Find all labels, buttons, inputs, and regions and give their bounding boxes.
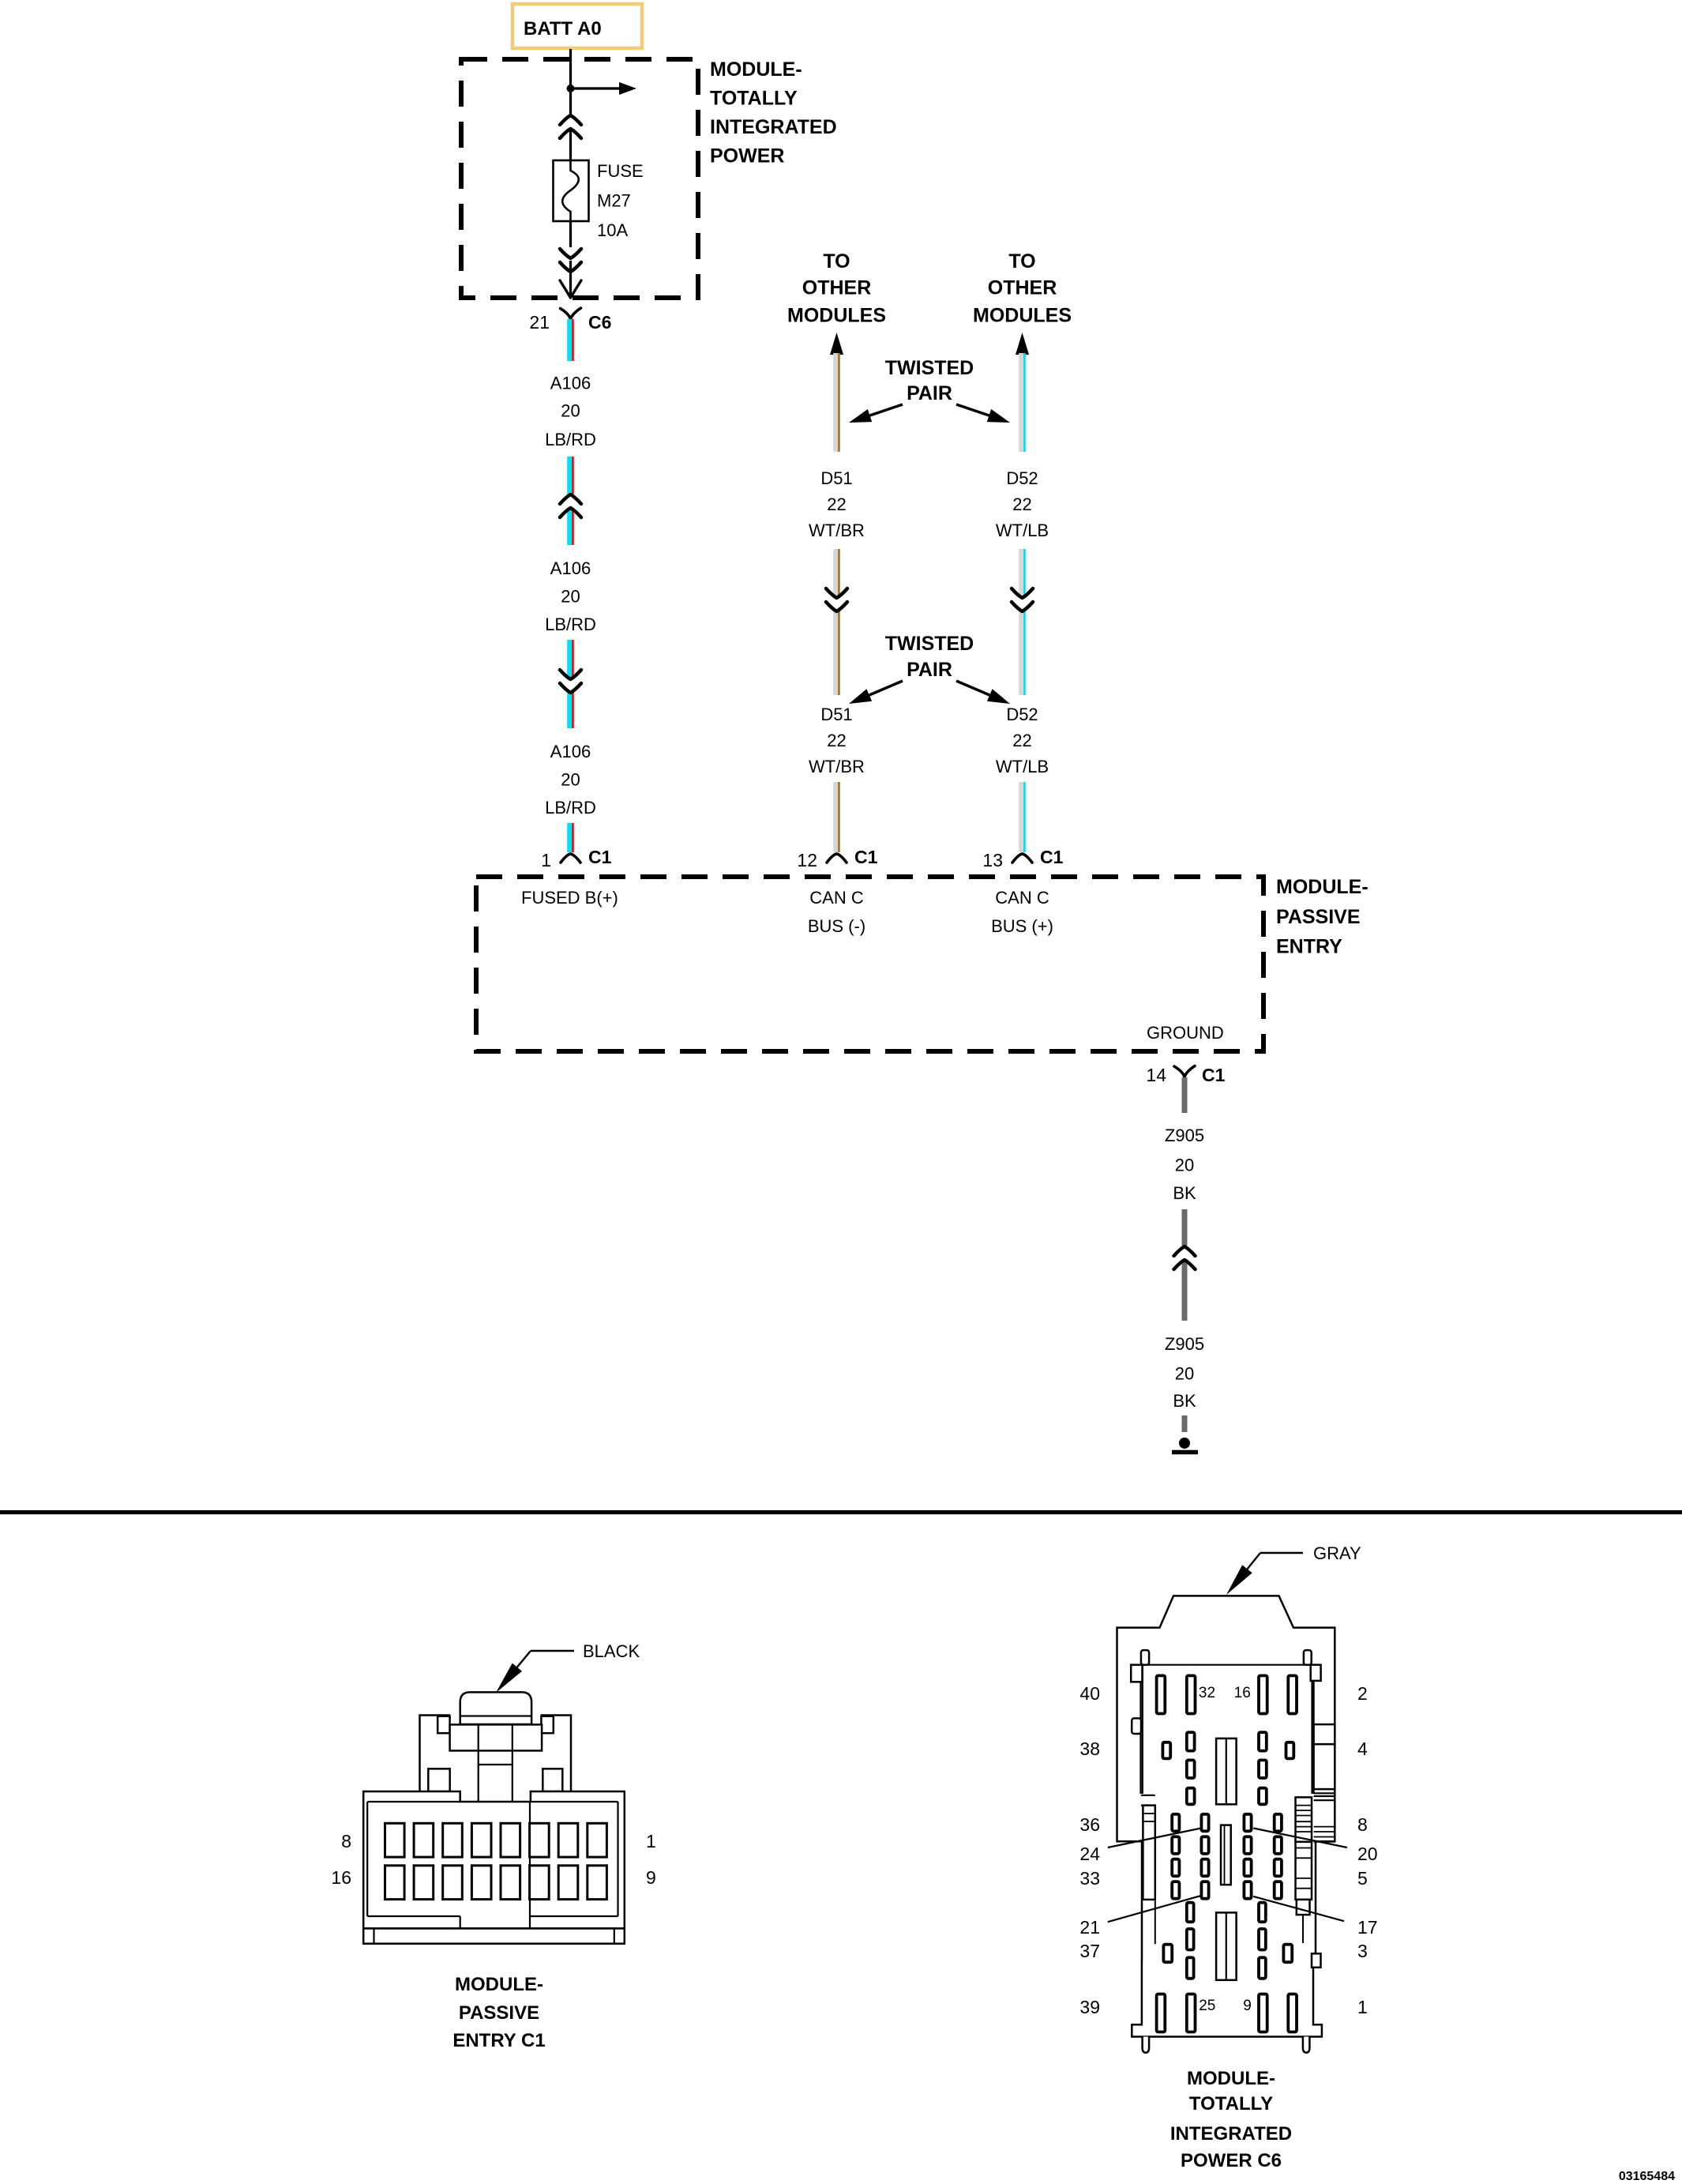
connector C6 upper middle slots — [1162, 1732, 1293, 1804]
svg-text:BATT A0: BATT A0 — [524, 18, 602, 39]
svg-text:39: 39 — [1079, 1997, 1100, 2017]
svg-text:PAIR: PAIR — [907, 659, 952, 681]
svg-text:MODULES: MODULES — [973, 305, 1072, 327]
svg-text:40: 40 — [1079, 1683, 1100, 1704]
pin 12 connector C1 — [797, 847, 877, 870]
svg-text:FUSE: FUSE — [597, 161, 644, 181]
leader line pin 20 — [1253, 1829, 1347, 1848]
label D52 22 first — [996, 468, 1049, 540]
svg-text:LB/RD: LB/RD — [545, 430, 596, 449]
svg-text:20: 20 — [561, 587, 580, 607]
wire Z905 segment 2 BK with inline connector — [1182, 1209, 1188, 1321]
connector C6 bottom tall pin slots — [1157, 1994, 1297, 2032]
svg-text:9: 9 — [646, 1867, 656, 1888]
svg-text:03165484: 03165484 — [1619, 2170, 1675, 2183]
connector C6 bottom feet — [1143, 1953, 1321, 2052]
svg-text:37: 37 — [1079, 1941, 1100, 1961]
wire CAN C bus minus D51 segment 1 — [833, 353, 840, 452]
svg-text:8: 8 — [1357, 1814, 1368, 1835]
power source box BATT A0 — [512, 4, 642, 48]
outer pin numbers right column — [1357, 1683, 1378, 2017]
svg-text:9: 9 — [1243, 1998, 1252, 2014]
outer pin numbers left column — [1079, 1683, 1100, 2017]
svg-text:WT/BR: WT/BR — [809, 757, 865, 776]
connector C6 left latch details — [1141, 1795, 1155, 1944]
module U1 TIPM dashed box — [461, 59, 698, 298]
twisted pair arrow right 2 — [956, 681, 1010, 704]
connector C6 outer housing — [1117, 1596, 1335, 2036]
connector face BLACK label and leader — [496, 1641, 640, 1693]
pin function label FUSED B(+) — [521, 888, 618, 908]
inline connector chevrons on D51 — [826, 588, 847, 611]
leader line pin 24 — [1108, 1829, 1201, 1848]
svg-text:MODULE-: MODULE- — [1187, 2068, 1275, 2089]
label twisted pair 1 — [885, 357, 974, 404]
module U2 passive entry dashed box — [476, 877, 1263, 1051]
svg-text:TOTALLY: TOTALLY — [1189, 2093, 1273, 2114]
svg-text:21: 21 — [1079, 1917, 1100, 1938]
svg-text:21: 21 — [529, 312, 550, 333]
svg-text:MODULE-: MODULE- — [1276, 876, 1369, 898]
connector C6 pin field frame — [1131, 1650, 1320, 1794]
arrowhead to other modules D51 — [830, 333, 843, 355]
svg-text:FUSED B(+): FUSED B(+) — [521, 888, 618, 908]
wire CAN C bus minus D51 segment 2 with inline connector — [833, 549, 840, 695]
svg-text:PAIR: PAIR — [907, 382, 952, 404]
svg-text:17: 17 — [1357, 1917, 1378, 1938]
svg-text:22: 22 — [1012, 494, 1031, 514]
connector C1 upper latch structure — [420, 1716, 572, 1802]
svg-text:20: 20 — [561, 770, 580, 790]
svg-text:WT/BR: WT/BR — [809, 521, 865, 540]
svg-text:13: 13 — [982, 850, 1003, 870]
svg-text:BUS (-): BUS (-) — [808, 916, 865, 936]
caption MODULE-PASSIVE ENTRY C1 — [452, 1974, 545, 2051]
label Z905 20 BK second — [1165, 1334, 1204, 1411]
svg-text:24: 24 — [1079, 1844, 1100, 1864]
ground symbol G904 — [1172, 1438, 1198, 1453]
svg-text:OTHER: OTHER — [988, 277, 1057, 299]
wire branch arrow to other circuits — [571, 82, 637, 95]
pin 1 connector C1 — [541, 847, 611, 870]
wire CAN C bus plus D52 segment 2 with inline connector — [1019, 549, 1026, 695]
connector C1 main body — [363, 1791, 625, 1944]
svg-text:1: 1 — [541, 850, 551, 870]
svg-text:33: 33 — [1079, 1868, 1100, 1889]
svg-text:MODULE-: MODULE- — [710, 58, 802, 81]
svg-text:C1: C1 — [854, 847, 878, 867]
pin function label CAN C BUS (-) — [808, 888, 865, 936]
svg-text:1: 1 — [1357, 1997, 1368, 2017]
svg-text:20: 20 — [1175, 1156, 1194, 1175]
svg-text:D52: D52 — [1006, 705, 1038, 724]
svg-text:WT/LB: WT/LB — [996, 757, 1049, 776]
svg-text:C1: C1 — [588, 847, 612, 867]
connector face GRAY label and leader — [1226, 1543, 1361, 1595]
svg-text:32: 32 — [1199, 1685, 1215, 1701]
connector C6 small slot grid — [1172, 1814, 1282, 1899]
label A106 20 LB/RD second — [545, 558, 596, 634]
svg-text:GRAY: GRAY — [1313, 1543, 1361, 1563]
wire CAN C bus plus D52 segment 3 to pin 13 — [1019, 782, 1026, 852]
connector C6 center key slot lower — [1216, 1912, 1237, 1979]
svg-text:TOTALLY: TOTALLY — [710, 88, 798, 110]
section divider line — [0, 1510, 1682, 1514]
svg-text:C1: C1 — [1040, 847, 1064, 867]
svg-text:A106: A106 — [550, 742, 591, 761]
svg-text:C1: C1 — [1202, 1065, 1226, 1085]
svg-text:Z905: Z905 — [1165, 1126, 1204, 1145]
svg-text:BK: BK — [1173, 1391, 1196, 1411]
svg-text:PASSIVE: PASSIVE — [459, 2002, 539, 2024]
svg-text:22: 22 — [827, 731, 846, 750]
svg-text:A106: A106 — [550, 558, 591, 578]
inline connector chevrons on A106 lower — [560, 670, 581, 693]
svg-text:C6: C6 — [588, 312, 611, 333]
label A106 20 LB/RD third — [545, 742, 596, 818]
wire CAN C bus plus D52 segment 1 — [1019, 353, 1026, 452]
inner pin numbers 25 9 — [1199, 1998, 1252, 2014]
wire CAN C bus minus D51 segment 3 to pin 12 — [833, 782, 840, 852]
inner pin numbers 32 16 — [1199, 1685, 1251, 1701]
svg-text:2: 2 — [1357, 1683, 1368, 1704]
wire A106 segment 1 LB/RD — [567, 319, 574, 361]
svg-text:TWISTED: TWISTED — [885, 357, 974, 379]
svg-text:D52: D52 — [1006, 468, 1038, 488]
wire A106 segment 3 LB/RD with inline connector — [567, 640, 574, 728]
svg-text:CAN C: CAN C — [995, 888, 1049, 908]
wire chevrons to fuse — [569, 129, 572, 161]
svg-text:36: 36 — [1079, 1814, 1100, 1835]
svg-text:LB/RD: LB/RD — [545, 798, 596, 818]
svg-text:PASSIVE: PASSIVE — [1276, 906, 1361, 928]
inline connector chevrons above fuse — [560, 115, 581, 138]
svg-text:BUS (+): BUS (+) — [991, 916, 1053, 936]
label D52 22 second — [996, 705, 1049, 776]
connector C1 housing cap — [460, 1692, 531, 1724]
svg-text:16: 16 — [331, 1867, 351, 1888]
node junction on feed wire — [567, 85, 575, 92]
svg-text:TO: TO — [1008, 250, 1035, 273]
pin function label CAN C BUS (+) — [991, 888, 1053, 936]
svg-text:INTEGRATED: INTEGRATED — [710, 116, 837, 138]
inline connector chevrons on A106 — [560, 494, 581, 517]
svg-text:ENTRY C1: ENTRY C1 — [452, 2030, 545, 2051]
label Z905 20 BK first — [1165, 1126, 1204, 1203]
svg-text:LB/RD: LB/RD — [545, 615, 596, 634]
svg-text:3: 3 — [1357, 1941, 1368, 1961]
pin 21 connector C6 — [529, 308, 611, 333]
svg-text:20: 20 — [1175, 1364, 1194, 1384]
pin numbers 8 1 16 9 — [331, 1831, 655, 1888]
arrowhead at TIPM box exit — [560, 280, 581, 298]
svg-text:20: 20 — [561, 401, 580, 421]
label module TIPM — [710, 58, 837, 167]
wire fuse to TIPM edge — [569, 221, 572, 286]
wire Z905 segment 1 BK — [1182, 1077, 1188, 1113]
svg-text:5: 5 — [1357, 1868, 1368, 1889]
svg-text:OTHER: OTHER — [802, 277, 872, 299]
label D51 22 first — [809, 468, 865, 540]
connector C6 right latch details — [1296, 1724, 1335, 1943]
svg-text:WT/LB: WT/LB — [996, 521, 1049, 540]
label module passive entry — [1276, 876, 1369, 958]
svg-text:20: 20 — [1357, 1844, 1378, 1864]
drawing number 03165484 — [1619, 2170, 1675, 2183]
svg-text:16: 16 — [1234, 1685, 1251, 1701]
svg-text:8: 8 — [341, 1831, 351, 1851]
svg-text:TWISTED: TWISTED — [885, 633, 974, 655]
connector C6 lower middle slots — [1163, 1903, 1292, 1979]
twisted pair arrow left 2 — [849, 681, 903, 704]
connector C6 center key slot middle — [1221, 1825, 1231, 1885]
pin 14 connector C1 — [1146, 1065, 1225, 1085]
svg-text:POWER C6: POWER C6 — [1181, 2150, 1282, 2171]
leader line pin 17 — [1253, 1896, 1344, 1921]
svg-text:25: 25 — [1199, 1998, 1215, 2014]
twisted pair arrow right 1 — [956, 404, 1010, 423]
label twisted pair 2 — [885, 633, 974, 681]
connector C6 top tall pin slots — [1157, 1675, 1297, 1713]
twisted pair arrow left 1 — [849, 404, 903, 423]
label fuse M27 10A — [597, 161, 644, 240]
svg-text:D51: D51 — [820, 468, 852, 488]
wire A106 segment 4 to pin 1 — [567, 823, 574, 852]
pin function label GROUND — [1147, 1023, 1224, 1043]
svg-text:GROUND: GROUND — [1147, 1023, 1224, 1043]
label D51 22 second — [809, 705, 865, 776]
svg-text:22: 22 — [827, 494, 846, 514]
svg-text:MODULE-: MODULE- — [455, 1974, 543, 1995]
wire battery feed into TIPM — [569, 49, 572, 116]
svg-text:22: 22 — [1012, 731, 1031, 750]
svg-text:BK: BK — [1173, 1183, 1196, 1203]
pin 13 connector C1 — [982, 847, 1063, 870]
svg-text:10A: 10A — [597, 220, 628, 240]
svg-text:14: 14 — [1146, 1065, 1166, 1085]
svg-text:D51: D51 — [820, 705, 852, 724]
caption MODULE-TOTALLY INTEGRATED POWER C6 — [1170, 2068, 1292, 2171]
label TO OTHER MODULES D52 — [973, 250, 1072, 327]
svg-text:4: 4 — [1357, 1739, 1368, 1759]
fuse M27 10A — [554, 160, 589, 221]
svg-text:TO: TO — [823, 250, 850, 273]
label TO OTHER MODULES D51 — [787, 250, 886, 327]
wire Z905 segment 3 to ground — [1182, 1415, 1188, 1432]
svg-text:12: 12 — [797, 850, 817, 870]
svg-text:MODULES: MODULES — [787, 305, 886, 327]
svg-text:A106: A106 — [550, 374, 591, 393]
label A106 20 LB/RD first — [545, 374, 596, 450]
leader line pin 21 — [1108, 1896, 1201, 1922]
svg-text:M27: M27 — [597, 191, 631, 211]
svg-text:1: 1 — [646, 1831, 656, 1851]
svg-text:38: 38 — [1079, 1739, 1100, 1759]
svg-text:CAN C: CAN C — [809, 888, 864, 908]
inline connector chevrons on Z905 — [1174, 1246, 1196, 1269]
svg-text:INTEGRATED: INTEGRATED — [1170, 2123, 1292, 2145]
arrowhead to other modules D52 — [1016, 333, 1029, 355]
connector C1 pin cavities rows 1-2 — [385, 1823, 607, 1899]
svg-text:BLACK: BLACK — [583, 1641, 640, 1661]
svg-text:ENTRY: ENTRY — [1276, 936, 1342, 958]
inline connector chevrons below fuse — [560, 249, 581, 272]
svg-text:POWER: POWER — [710, 145, 784, 167]
connector C6 center key slot upper — [1216, 1739, 1237, 1804]
svg-text:Z905: Z905 — [1165, 1334, 1204, 1354]
wire A106 segment 2 LB/RD with inline connector — [567, 457, 574, 545]
inline connector chevrons on D52 — [1012, 588, 1033, 611]
